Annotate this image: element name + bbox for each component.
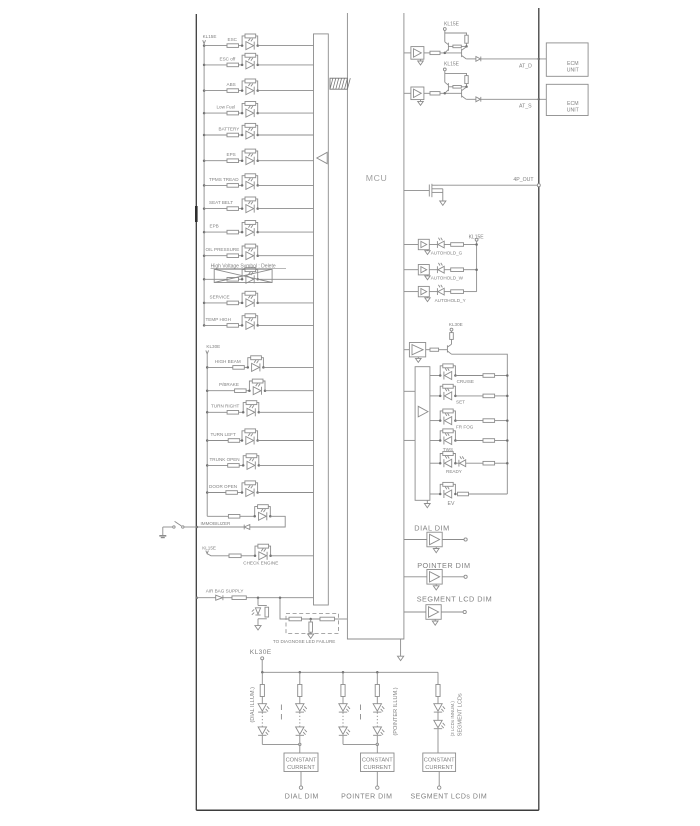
wire to MCU (335, 618, 348, 620)
wire KL15E rail (444, 30, 446, 42)
LED DOOR OPEN with parallel resistor (242, 483, 245, 493)
wire to LED rail (495, 420, 508, 422)
wire (455, 375, 483, 377)
transistor array feed PNP (447, 344, 451, 347)
wire pointer illumination A (342, 672, 344, 684)
transistor AT_D NPN (461, 49, 463, 57)
LED array row4 with parallel resistor (440, 431, 443, 441)
wire (440, 92, 462, 94)
diode AT_D (476, 57, 481, 62)
wire (444, 244, 451, 246)
wire MCU to driver array (404, 439, 415, 441)
LED row3 with parallel resistor (242, 81, 245, 91)
wire (429, 244, 437, 246)
wire array row4 (430, 440, 440, 442)
terminal DIAL DIM (464, 538, 467, 541)
KL30E illumination bus (262, 671, 438, 673)
LED array row6 with parallel resistor (440, 484, 443, 494)
node row1 on KL15E rail (203, 44, 206, 47)
wire to MCU connector (258, 134, 314, 136)
diagnostics dashed box (286, 614, 339, 634)
wire row13 (204, 324, 227, 326)
wire EV to LED rail (469, 493, 508, 495)
wire to MCU connector (258, 492, 314, 494)
resistor check engine (229, 554, 241, 558)
svg-text:OIL PRESSURE: OIL PRESSURE (206, 247, 240, 252)
wire (240, 515, 255, 517)
wire join dial chains (262, 743, 300, 745)
LED pointer illumination B 2 (373, 727, 381, 734)
node row6 on KL15E rail (203, 159, 206, 162)
wire to MCU connector (258, 45, 314, 47)
schematic border right edge (538, 8, 540, 810)
resistor divider 2 (320, 617, 335, 621)
wire to border (196, 526, 244, 528)
wire (244, 366, 248, 368)
wire array row6 (430, 493, 440, 495)
schematic border left edge (195, 14, 197, 810)
bus direction triangle (317, 152, 327, 163)
wire (239, 64, 243, 66)
wire emitter to LED rail (452, 354, 508, 494)
LED row5 with parallel resistor (242, 125, 245, 135)
LED dial illumination B 1 (296, 704, 304, 711)
node row12 on KL15E rail (203, 302, 206, 305)
wire (239, 90, 243, 92)
svg-text:TURN LEFT: TURN LEFT (211, 432, 236, 437)
buffer AUTOHOLD_Y (418, 286, 429, 296)
wire row6 (204, 160, 227, 162)
ECM unit box 1 (546, 43, 588, 76)
LED pointer illumination B 1 (373, 704, 381, 711)
buffer array feed (409, 343, 425, 357)
resistor DOOR OPEN (226, 491, 238, 495)
wire (261, 660, 263, 673)
wire to MCU connector (258, 255, 314, 257)
wire switch to chassis ground (162, 527, 164, 535)
wire row8 (204, 208, 227, 210)
wire MCU to 4P_OUT gate (404, 190, 429, 192)
wire (239, 231, 243, 233)
node row2 on KL15E rail (203, 64, 206, 67)
svg-text:AT_S: AT_S (519, 104, 532, 110)
wire emitter (466, 98, 476, 100)
KL15E terminal (443, 68, 446, 71)
LED row1 with parallel resistor (242, 36, 245, 46)
resistor EV (458, 492, 469, 496)
wire to MCU connector (271, 555, 314, 557)
wire to MCU connector (258, 160, 314, 162)
svg-text:KL30E: KL30E (449, 322, 463, 327)
LED dial illumination A 1 (258, 704, 266, 711)
wire (442, 539, 464, 541)
transistor AT_D PNP (445, 42, 449, 45)
wire down to clamp LED (257, 598, 259, 606)
KL15E terminal (443, 28, 446, 31)
wire (196, 597, 215, 599)
wire to LED rail (495, 440, 508, 442)
resistor feed base (430, 348, 439, 351)
resistor array row3 (483, 419, 495, 423)
wire (239, 112, 243, 114)
wire MCU to AUTOHOLD_G buffer (404, 244, 418, 246)
wire to KL15E rail (464, 244, 477, 246)
wire to MCU connector (265, 390, 314, 392)
diode immobilizer (244, 525, 250, 530)
clamp LED with parallel resistor (vertical) (258, 605, 267, 607)
svg-text:SEGMENT LCDs DIM: SEGMENT LCDs DIM (411, 794, 488, 801)
svg-text:AUTOHOLD_Y: AUTOHOLD_Y (435, 298, 466, 303)
wire base (448, 45, 453, 47)
LED segment LCD backlight 2 (434, 720, 442, 727)
resistor TRUNK OPEN (228, 464, 240, 468)
svg-text:CHECK ENGINE: CHECK ENGINE (243, 561, 278, 566)
wire dotted (more LEDs) (376, 712, 378, 727)
wire (437, 697, 439, 704)
resistor row7 (227, 184, 239, 188)
transistor 4P_OUT MOSFET (428, 185, 430, 197)
svg-text:TO DIAGNOSE LED FAILURE: TO DIAGNOSE LED FAILURE (273, 639, 335, 644)
ground (420, 100, 422, 102)
wire (424, 92, 430, 94)
wire MCU to AT_S buffer (404, 92, 411, 94)
node row11 on KL15E rail (203, 278, 206, 281)
wire (376, 697, 378, 704)
wire (440, 52, 462, 54)
wire (207, 554, 229, 556)
resistor dial illumination B (298, 685, 302, 697)
ground (427, 250, 429, 251)
wire AT_D output (481, 58, 547, 60)
diode AT_S (476, 97, 481, 102)
wire to MCU connector (258, 208, 314, 210)
wire join pointer chains (343, 743, 377, 745)
wire (451, 339, 453, 344)
node on border (196, 596, 199, 599)
constant current source box (284, 753, 318, 772)
KL15E left rail (203, 44, 205, 326)
svg-text:(3 LCDs INNUM.): (3 LCDs INNUM.) (450, 701, 455, 737)
node row9 on KL15E rail (203, 231, 206, 234)
wire (439, 349, 448, 351)
buffer AUTOHOLD_W (418, 265, 429, 275)
wire DOOR OPEN (207, 492, 226, 494)
wire (455, 440, 483, 442)
node row10 on KL15E rail (203, 254, 206, 257)
resistor pull-up (465, 35, 468, 43)
LED TURN RIGHT with parallel resistor (243, 403, 246, 413)
KL15E rail autohold (476, 241, 478, 292)
wire dotted (more LEDs) (342, 712, 344, 727)
wire (455, 395, 483, 397)
wire (239, 255, 243, 257)
LED pointer illumination A 1 (339, 704, 347, 711)
svg-text:SEAT BELT: SEAT BELT (209, 200, 233, 205)
wire MCU to AT_D buffer (404, 52, 411, 54)
resistor row3 (227, 89, 239, 93)
resistor row10 (227, 254, 239, 258)
wire to MCU connector (263, 366, 313, 368)
wire to KL15E rail (464, 291, 477, 293)
wire (376, 744, 378, 753)
KL30E terminal (450, 328, 453, 331)
svg-text:P/BRAKE: P/BRAKE (219, 382, 239, 387)
wire dial illumination A (261, 672, 263, 684)
wire base (448, 86, 453, 88)
wire dotted (more LEDs) (299, 712, 301, 727)
svg-text:CRUISE: CRUISE (457, 379, 474, 384)
terminal POINTER DIM (464, 575, 467, 578)
terminal SEGMENT LCD DIM (463, 610, 466, 613)
KL30E left rail (206, 354, 208, 517)
wire (299, 697, 301, 704)
wire (299, 744, 301, 753)
wire emitter (466, 58, 476, 60)
resistor array row4 (483, 439, 495, 443)
svg-text:MCU: MCU (366, 173, 388, 183)
wire TURN LEFT (207, 440, 228, 442)
wire row5 (204, 134, 227, 136)
wire (239, 134, 243, 136)
svg-text:CONSTANT: CONSTANT (286, 758, 317, 764)
buffer AUTOHOLD_G (418, 239, 429, 249)
wire (455, 462, 459, 464)
wire (455, 420, 483, 422)
hatched bus block (330, 78, 350, 89)
wire (239, 411, 244, 413)
wire (239, 324, 243, 326)
LED array row5 with parallel resistor (440, 454, 443, 464)
LED TRUNK OPEN with parallel resistor (243, 456, 246, 466)
svg-text:(POINTER ILLUM.): (POINTER ILLUM.) (393, 687, 399, 735)
resistor pointer illumination A (341, 685, 345, 697)
resistor air bag supply (232, 596, 246, 600)
wire row10 (204, 255, 227, 257)
svg-text:IMMOBILIZER: IMMOBILIZER (201, 521, 232, 526)
wire dotted (more LEDs) (261, 712, 263, 727)
ground (435, 584, 437, 586)
wire to MCU connector (258, 302, 314, 304)
wire to KL15E rail (464, 269, 477, 271)
svg-text:Low Fuel: Low Fuel (217, 105, 236, 110)
resistor AUTOHOLD_Y (451, 290, 464, 294)
wire source to ground (442, 189, 444, 201)
wire to LED rail (495, 462, 508, 464)
wire (240, 440, 242, 442)
wire (246, 597, 313, 599)
driver array triangle (418, 406, 428, 417)
node HIGH BEAM on KL30E rail (206, 366, 209, 369)
wire (239, 184, 243, 186)
svg-text:DOOR OPEN: DOOR OPEN (209, 484, 237, 489)
wire to MCU connector (259, 411, 314, 413)
wire KL15E top (445, 33, 467, 35)
wire (426, 349, 430, 351)
LED row2 with parallel resistor (242, 55, 245, 65)
svg-text:POINTER DIM: POINTER DIM (341, 794, 392, 801)
terminal SEGMENT LCDs DIM (438, 786, 441, 789)
resistor AUTOHOLD_W (451, 268, 464, 272)
wire (261, 736, 263, 745)
LED READY (458, 460, 460, 467)
wire MCU to driver array (404, 390, 415, 392)
svg-text:CONSTANT: CONSTANT (424, 758, 455, 764)
wire (444, 291, 451, 293)
LED segment LCD backlight 1 (434, 704, 442, 711)
deletion cross box (214, 269, 272, 282)
svg-text:AUTOHOLD_W: AUTOHOLD_W (431, 276, 464, 281)
wire MCU to AUTOHOLD_Y buffer (404, 291, 418, 293)
diode air bag supply (216, 595, 223, 600)
wire segment LCD backlight (437, 672, 439, 684)
KL30E rail arrow (206, 350, 209, 353)
wire to MCU connector (258, 440, 314, 442)
LED row4 with parallel resistor (242, 103, 245, 113)
immobilizer switch (184, 526, 196, 528)
svg-text:CURRENT: CURRENT (287, 765, 315, 771)
LED P/BRAKE with parallel resistor (249, 381, 252, 391)
wire MCU to DIAL DIM buffer (404, 539, 427, 541)
terminal 4P_OUT (537, 184, 540, 187)
wire to MCU connector (258, 278, 314, 280)
wire (437, 729, 439, 753)
resistor segment LCD backlight (436, 685, 440, 697)
chassis ground (159, 535, 166, 537)
svg-text:KL15E: KL15E (202, 545, 216, 550)
buffer POINTER DIM (427, 570, 442, 585)
resistor row5 (227, 133, 239, 137)
svg-text:KL30E: KL30E (250, 649, 272, 656)
node diagnostics branch (279, 596, 282, 599)
wire HIGH BEAM (207, 366, 233, 368)
KL30E terminal (261, 657, 264, 660)
buffer SEGMENT LCD DIM (426, 605, 441, 620)
resistor TURN RIGHT (227, 411, 239, 415)
svg-text:UNIT: UNIT (567, 107, 580, 113)
svg-text:ABS: ABS (227, 82, 236, 87)
resistor row8 (227, 207, 239, 211)
wire (239, 302, 243, 304)
svg-text:DIAL DIM: DIAL DIM (414, 523, 449, 532)
node row13 on KL15E rail (203, 324, 206, 327)
wire (299, 736, 301, 745)
svg-text:ECM: ECM (567, 61, 579, 67)
wire KL30E rail corner to immobilizer resistor (207, 515, 228, 517)
wire array row2 (430, 395, 440, 397)
wire (239, 208, 243, 210)
svg-text:KL15E: KL15E (203, 34, 217, 39)
wire pointer illumination B (376, 672, 378, 684)
ground (435, 547, 437, 549)
wire to LED rail (495, 395, 508, 397)
wire row4 (204, 112, 227, 114)
svg-text:SET: SET (456, 399, 465, 404)
node row7 on KL15E rail (203, 184, 206, 187)
wire immobilizer loop (250, 516, 285, 527)
wire P/BRAKE (207, 390, 234, 392)
wire to MCU connector (258, 184, 314, 186)
driver array box (415, 367, 430, 501)
svg-text:ESC off: ESC off (220, 56, 236, 61)
wire MCU to feed buffer (404, 349, 410, 351)
MCU box (347, 13, 404, 639)
node row4 on KL15E rail (203, 112, 206, 115)
LED TURN LEFT with parallel resistor (242, 431, 245, 441)
LED array row3 with parallel resistor (440, 411, 443, 421)
wire (466, 462, 483, 464)
resistor divider 1 (289, 617, 302, 621)
wire KL15E rail (444, 71, 446, 83)
wire to MCU connector (258, 112, 314, 114)
wire (223, 597, 232, 599)
wire (437, 712, 439, 720)
wire MCU to AUTOHOLD_W buffer (404, 269, 418, 271)
wire down to diagnostics divider (280, 598, 289, 619)
wire row7 (204, 184, 227, 186)
ground (420, 59, 422, 61)
svg-text:HIGH BEAM: HIGH BEAM (215, 359, 241, 364)
svg-text:SERVICE: SERVICE (210, 294, 230, 299)
border mark (195, 206, 198, 222)
resistor AT_D base (430, 51, 440, 54)
schematic border bottom edge (196, 809, 539, 811)
svg-text:UNIT: UNIT (567, 68, 580, 74)
LED immobilizer with parallel resistor (255, 507, 258, 517)
ground (434, 619, 436, 621)
wire (239, 45, 243, 47)
resistor array row5 (483, 461, 495, 465)
wire to LED rail (495, 375, 508, 377)
ground (417, 357, 419, 358)
resistor row4 (227, 111, 239, 115)
LED row7 with parallel resistor (242, 176, 245, 186)
resistor row9 (227, 230, 239, 234)
LED check engine with parallel resistor (255, 546, 258, 556)
ground (255, 626, 261, 630)
svg-text:AT_D: AT_D (519, 63, 532, 69)
KL15E stub arrow (206, 551, 209, 554)
svg-text:POINTER DIM: POINTER DIM (417, 561, 470, 570)
wire (444, 269, 451, 271)
svg-text:KL30E: KL30E (206, 344, 220, 349)
svg-text:ECM: ECM (567, 101, 579, 107)
svg-text:KL15E: KL15E (444, 21, 460, 27)
LED array row1 with parallel resistor (440, 366, 443, 376)
node row5 on KL15E rail (203, 134, 206, 137)
wire (429, 269, 437, 271)
resistor array row2 (483, 394, 495, 398)
resistor pointer illumination B (375, 685, 379, 697)
resistor AUTOHOLD_G (451, 243, 464, 247)
wire (300, 772, 302, 786)
junction (299, 743, 301, 745)
svg-text:SEGMENT LCD DIM: SEGMENT LCD DIM (417, 595, 492, 604)
LED row10 with parallel resistor (242, 246, 245, 256)
wire (246, 390, 249, 392)
wire (239, 160, 243, 162)
resistor row2 (227, 63, 239, 67)
svg-text:EV: EV (448, 501, 455, 507)
svg-text:KL15E: KL15E (444, 62, 460, 68)
wire (441, 611, 463, 613)
node TURN LEFT on KL30E rail (206, 439, 209, 442)
wire to MCU connector (258, 90, 314, 92)
svg-text:TEMP HIGH: TEMP HIGH (206, 317, 231, 322)
wire to MCU connector (258, 231, 314, 233)
wire KL15E top (445, 73, 467, 75)
resistor row13 (227, 324, 239, 328)
wire (429, 291, 437, 293)
